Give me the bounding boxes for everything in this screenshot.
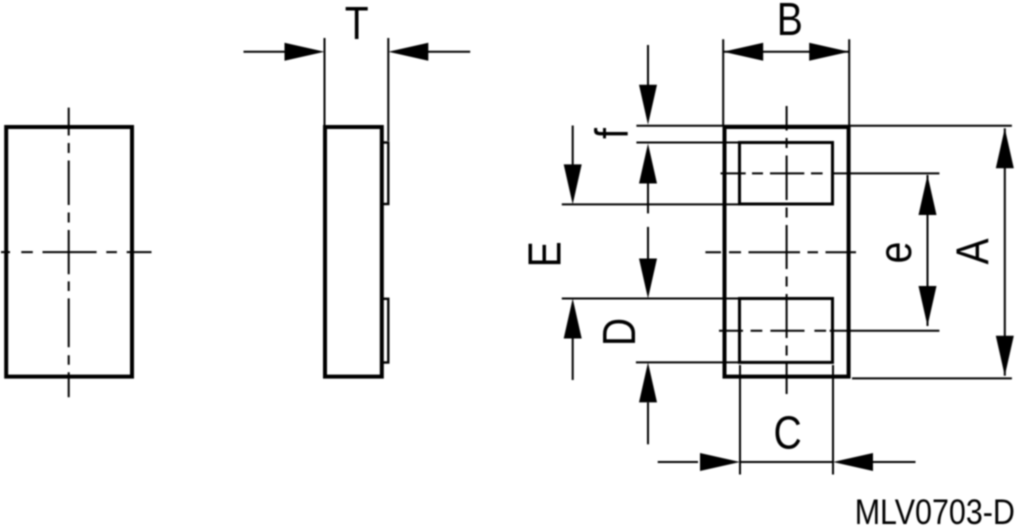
extension line pad2 bottom (D lower) xyxy=(636,361,740,363)
extension line pad2 top (E lower / D upper) xyxy=(562,298,740,300)
bottom view upper pad xyxy=(740,143,833,205)
svg-text:C: C xyxy=(773,408,801,460)
lower pad centerline xyxy=(719,330,939,332)
dimension C right arrow xyxy=(833,453,873,471)
label e xyxy=(870,242,922,264)
extension line body top (f upper / A upper) xyxy=(636,125,1012,127)
dimension C extension line right xyxy=(832,365,834,475)
svg-text:T: T xyxy=(345,0,369,50)
extension line body bottom (A lower) xyxy=(852,377,1012,379)
extension line pad1 bottom (E upper) xyxy=(562,203,740,205)
dimension D upper arrow xyxy=(647,227,649,259)
bottom view body outline xyxy=(725,127,849,377)
dimension f lower arrow xyxy=(639,144,657,184)
dimension C line between extensions xyxy=(740,461,833,463)
svg-text:D: D xyxy=(594,318,646,346)
label A xyxy=(948,238,1000,265)
dimension T extension line right xyxy=(387,38,389,141)
dimension T line left with arrow xyxy=(244,51,287,53)
bottom view lower pad xyxy=(740,299,833,363)
upper pad centerline xyxy=(721,172,940,174)
dimension e lower arrow xyxy=(919,286,937,326)
front view body outline xyxy=(6,127,132,377)
dimension T line right with arrow xyxy=(427,51,470,53)
dimension C left arrow xyxy=(658,461,698,463)
dimension C extension line left xyxy=(739,365,741,475)
side view lower terminal tab xyxy=(382,299,389,363)
dimension e line xyxy=(927,175,929,326)
svg-text:MLV0703-D: MLV0703-D xyxy=(855,492,1015,528)
front view horizontal centerline xyxy=(1,251,152,253)
label f xyxy=(587,128,639,139)
svg-text:B: B xyxy=(777,0,803,46)
bottom view horizontal centerline xyxy=(705,251,856,253)
dimension T extension line left xyxy=(324,38,326,125)
dimension A lower arrow xyxy=(996,336,1014,376)
extension line pad1 top (f lower) xyxy=(636,142,740,144)
dimension B arrow left xyxy=(723,43,763,61)
svg-text:f: f xyxy=(587,128,639,139)
label E xyxy=(520,241,572,267)
dimension D lower arrow xyxy=(639,362,657,402)
front view vertical centerline xyxy=(68,108,70,398)
dimension f upper arrow xyxy=(647,45,649,86)
side view body outline xyxy=(325,127,382,377)
label B xyxy=(777,0,803,46)
svg-text:A: A xyxy=(948,238,1000,265)
dimension e upper arrow xyxy=(919,175,937,215)
svg-text:e: e xyxy=(870,242,922,264)
dimension E lower arrow xyxy=(564,299,582,339)
dimension B extension line left xyxy=(722,39,724,125)
dimension B line xyxy=(723,51,849,53)
dimension A line xyxy=(1004,128,1006,375)
svg-text:E: E xyxy=(520,241,572,267)
label C xyxy=(773,408,801,460)
label T xyxy=(345,0,369,50)
drawing number MLV0703-D xyxy=(855,492,1015,528)
label D xyxy=(594,318,646,346)
dimension B extension line right xyxy=(848,39,850,125)
dimension B arrow right xyxy=(809,43,849,61)
dimension E upper arrow xyxy=(572,126,574,167)
side view upper terminal tab xyxy=(382,143,389,205)
bottom view vertical centerline xyxy=(786,106,788,394)
dimension A upper arrow xyxy=(996,128,1014,168)
